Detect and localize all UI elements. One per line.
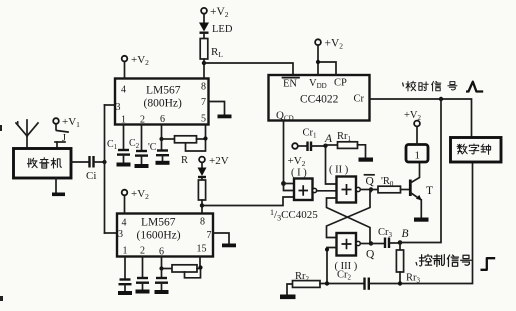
ground pin7 U2	[222, 244, 236, 248]
wire to LED	[203, 14, 205, 23]
svg-text:QCD: QCD	[276, 110, 294, 123]
node trigger junction	[325, 281, 329, 285]
node A	[323, 133, 333, 148]
wire Cr pin to clock line	[370, 99, 472, 138]
svg-text:+V2: +V2	[131, 54, 149, 67]
svg-text:C2: C2	[129, 138, 140, 150]
svg-text:6: 6	[160, 114, 165, 125]
wire pin7 U2 to ground	[213, 233, 229, 244]
node timing junction	[439, 97, 443, 101]
relay box J	[406, 145, 428, 163]
resistor Rr1	[326, 131, 374, 162]
svg-text:A: A	[324, 133, 333, 145]
op CC4022 U3	[269, 75, 370, 123]
svg-text:8: 8	[201, 82, 206, 93]
ground emitter	[414, 218, 429, 222]
wire pin7 U1 to ground	[209, 102, 225, 115]
svg-text:LM567: LM567	[141, 217, 176, 229]
ground Rr2	[280, 284, 296, 299]
wire +V2 to pin4 U2	[124, 195, 126, 213]
svg-text:4: 4	[122, 218, 127, 229]
box 数字钟 digital clock	[451, 138, 502, 163]
capacitor Cr2	[337, 270, 369, 290]
terminal +2V	[199, 155, 229, 167]
wire Qcd down to gate I	[283, 121, 285, 184]
svg-text:+2V: +2V	[209, 155, 229, 167]
svg-text:1: 1	[415, 150, 421, 162]
diode D2	[198, 162, 207, 177]
terminal +V2 for U2	[122, 188, 149, 201]
svg-text:'R0: 'R0	[381, 176, 394, 188]
wire +V2 to VDD and CP	[318, 45, 336, 75]
svg-text:3: 3	[116, 102, 121, 113]
wire +V2 to pin4 U1	[124, 62, 126, 79]
label 控制信号 control signal	[419, 255, 471, 267]
capacitor C4	[118, 257, 132, 296]
nor-gate U4B (II)	[329, 165, 360, 203]
svg-text:( II ): ( II )	[329, 165, 349, 176]
wire B up to timing junction	[400, 99, 441, 243]
svg-text:1/3CC4025: 1/3CC4025	[270, 208, 318, 223]
svg-text:'C: 'C	[148, 142, 157, 153]
svg-text:Rr2: Rr2	[295, 271, 310, 283]
wire node A to gate II input	[326, 146, 337, 184]
node junction at bus	[102, 160, 106, 164]
svg-text:RL: RL	[211, 46, 223, 59]
svg-text:3: 3	[118, 229, 123, 240]
wire gate I out to gate II input	[317, 190, 337, 192]
comma mark	[416, 262, 417, 266]
svg-text:Cr3: Cr3	[378, 227, 393, 239]
resistor R0	[371, 176, 401, 193]
op LM567 U1 (800Hz)	[115, 79, 209, 126]
svg-text:B: B	[402, 228, 409, 240]
wire U2 out to gate I input	[202, 197, 294, 206]
resistor Rr3	[396, 243, 420, 285]
wire gate III output to node Q	[360, 243, 371, 245]
switch J	[55, 124, 68, 149]
wire Qcd to gate I inputs	[284, 184, 295, 191]
node Q	[366, 241, 375, 260]
resistor R2 pullup	[198, 178, 205, 214]
potentiometer RP2	[162, 257, 203, 278]
svg-text:(1600Hz): (1600Hz)	[137, 230, 181, 242]
svg-text:( I ): ( I )	[291, 168, 307, 179]
svg-text:7: 7	[201, 97, 206, 108]
wire to pin3 U2	[105, 232, 118, 234]
svg-text:4: 4	[121, 85, 126, 96]
wire gate II output to node Qbar	[360, 189, 371, 191]
wire radio to Ci	[71, 161, 88, 163]
wire J to +V2	[416, 126, 418, 144]
node pin8 U2 junction	[200, 203, 204, 207]
potentiometer RP1	[162, 125, 208, 152]
node Qbar	[365, 175, 375, 192]
capacitor C3	[148, 139, 170, 165]
label 校时信号 timing signal	[406, 81, 457, 91]
wire RL to pin8 U1	[203, 59, 205, 79]
capacitor C6	[155, 269, 169, 295]
wire vertical input bus to pin3 of both LM567	[104, 105, 106, 233]
svg-text:Q: Q	[366, 249, 375, 261]
svg-text:Cr1: Cr1	[303, 128, 318, 140]
svg-text:7: 7	[207, 230, 212, 241]
scan specks	[0, 121, 19, 301]
svg-text:CP: CP	[334, 78, 347, 89]
wire U1 out to CC4022 EN	[204, 63, 293, 75]
ground under radio	[52, 178, 65, 196]
capacitor Cr3	[371, 227, 400, 248]
svg-text:8: 8	[200, 217, 205, 228]
wire trigger input to gate III	[325, 248, 337, 284]
svg-text:+V2: +V2	[210, 6, 229, 19]
svg-text:EN: EN	[283, 79, 297, 90]
node VDD junction	[316, 60, 320, 64]
capacitor Cr1	[298, 128, 326, 152]
wire crosscouple Qbar to gate III input	[327, 190, 372, 238]
op LM567 U2 (1600Hz)	[117, 214, 213, 258]
wire bottom rail left	[320, 283, 363, 285]
tick mark	[403, 83, 404, 87]
node Qcd gate input	[281, 181, 286, 186]
svg-text:LED: LED	[212, 24, 233, 35]
nor-gate U4C (III)	[335, 233, 361, 272]
terminal +V2 for U3	[315, 38, 343, 51]
svg-text:(800Hz): (800Hz)	[144, 98, 182, 110]
capacitor C1	[107, 125, 131, 167]
svg-text:Ci: Ci	[86, 170, 96, 182]
svg-text:Cr: Cr	[354, 94, 365, 105]
node Rr3 bottom	[398, 281, 402, 285]
node B	[398, 228, 409, 245]
svg-text:J: J	[62, 133, 66, 144]
terminal +V2 for J	[404, 110, 422, 126]
nor-gate U4A (I)	[291, 168, 317, 201]
svg-text:1: 1	[123, 246, 128, 257]
wire pin6 U1 down	[161, 125, 163, 140]
wire Ci to bus	[94, 161, 105, 163]
LED D1	[199, 23, 233, 36]
svg-text:+V1: +V1	[62, 116, 80, 129]
resistor RL	[200, 39, 223, 60]
svg-text:C1: C1	[107, 139, 118, 151]
svg-text:+V2: +V2	[131, 188, 149, 201]
terminal +V2 top LED	[201, 6, 229, 19]
svg-text:+V2: +V2	[325, 38, 344, 51]
radio box 收音机	[14, 149, 72, 179]
pulse waveform glyph	[466, 82, 483, 92]
node pin8/EN junction	[202, 61, 206, 65]
antenna	[16, 120, 38, 149]
node pin6	[159, 137, 163, 141]
svg-text:T: T	[426, 185, 433, 197]
capacitor C2	[129, 125, 149, 169]
terminal +V1	[53, 116, 80, 129]
svg-text:Q: Q	[366, 176, 375, 188]
resistor Rr2	[293, 271, 321, 287]
svg-text:Rr1: Rr1	[337, 131, 352, 143]
svg-text:CC4022: CC4022	[300, 94, 339, 106]
wire to pin3 U1	[105, 104, 116, 106]
transistor T	[410, 162, 433, 218]
terminal Cr1 input	[292, 143, 298, 149]
wire crosscouple Q to gate II input	[327, 198, 371, 244]
wire R0 to base	[401, 189, 410, 191]
ground pin7 U1	[218, 115, 232, 119]
svg-text:+V2: +V2	[404, 110, 422, 122]
wire bottom rail right	[369, 162, 473, 284]
node pin6 U2	[159, 266, 163, 270]
svg-text:2: 2	[140, 246, 145, 257]
capacitor Ci	[86, 156, 96, 182]
svg-text:VDD: VDD	[309, 78, 327, 90]
svg-text:15: 15	[197, 244, 207, 255]
svg-text:5: 5	[201, 114, 206, 125]
wire LED to RL	[203, 34, 205, 39]
capacitor C5	[136, 257, 150, 294]
terminal +V2 for U1	[122, 54, 149, 67]
svg-text:R: R	[181, 155, 188, 166]
wire pin6 U2 down	[161, 257, 163, 269]
svg-text:+V2: +V2	[288, 155, 306, 168]
svg-text:LM567: LM567	[146, 85, 181, 97]
step waveform glyph	[481, 258, 496, 270]
